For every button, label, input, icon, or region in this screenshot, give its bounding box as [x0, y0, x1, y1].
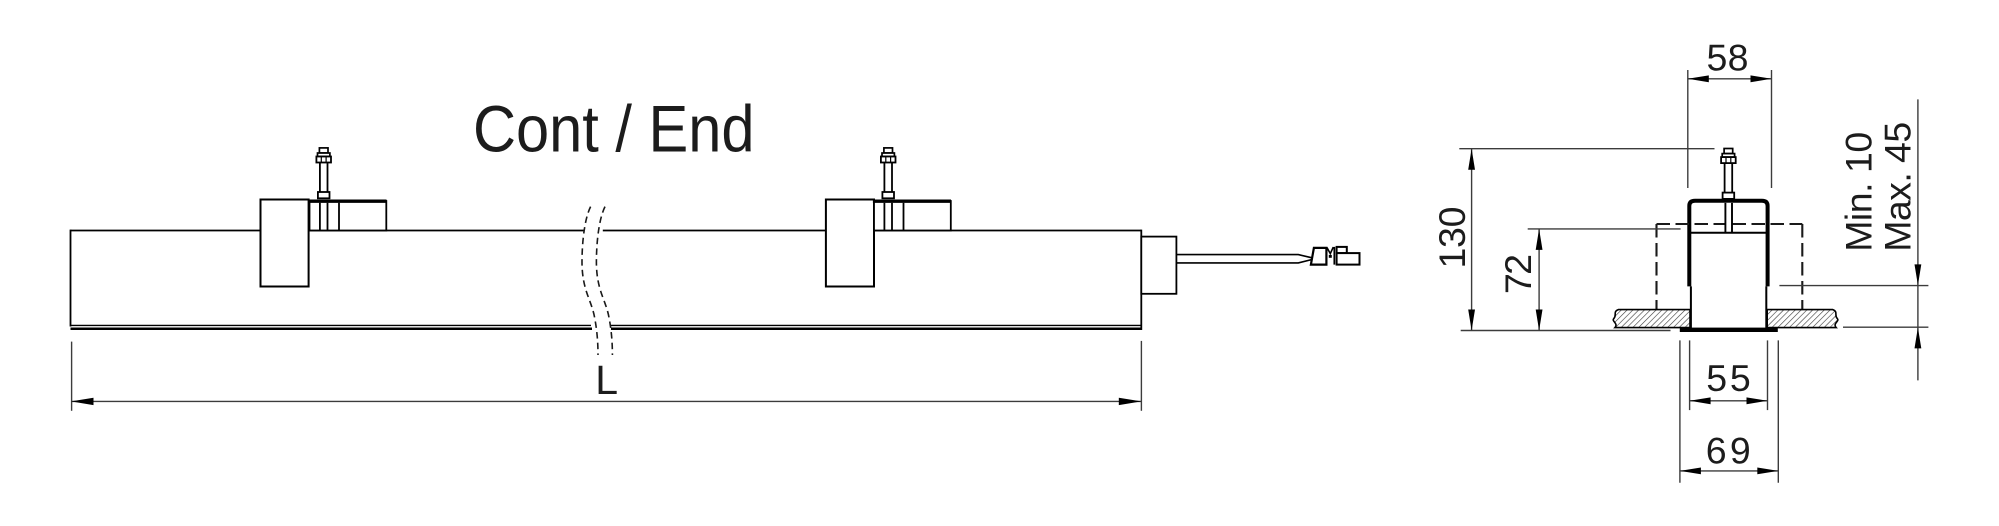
profile left edge	[70, 230, 72, 327]
cross-section: inner profile side lines	[1691, 233, 1766, 329]
svg-text:130: 130	[1431, 207, 1473, 269]
bracket 2 inner verticals	[884, 203, 903, 230]
end cap	[1141, 237, 1176, 294]
connector plug	[1311, 247, 1360, 265]
dimension 72	[1528, 229, 1681, 331]
dimension 130	[1459, 149, 1714, 331]
dimension 69	[1680, 340, 1778, 482]
dimension 55	[1690, 340, 1768, 410]
mounting clamp 2	[826, 200, 874, 287]
bolt 2	[881, 148, 896, 198]
profile base thick line	[71, 328, 1142, 331]
svg-text:72: 72	[1497, 254, 1539, 294]
bolt (cross-section)	[1721, 149, 1736, 199]
profile right edge	[1140, 230, 1142, 330]
inner profile top line	[1690, 232, 1767, 234]
svg-text:Max. 45: Max. 45	[1876, 122, 1918, 252]
ceiling panel right (hatched)	[1767, 310, 1838, 328]
bracket plate 1 (thick top)	[308, 199, 386, 202]
cross-section: outer spring bracket (thick)	[1689, 201, 1767, 287]
mounting clamp 1	[261, 200, 309, 287]
bolt 1	[316, 148, 331, 198]
dimension L	[71, 341, 1141, 411]
profile bottom thin line	[71, 324, 1142, 326]
flange plate	[1680, 328, 1778, 332]
bolt shaft through bracket (cross-section)	[1726, 203, 1732, 232]
svg-text:Min. 10: Min. 10	[1838, 132, 1880, 252]
bracket plate 2 (thick top)	[873, 199, 951, 202]
bracket box 2	[874, 201, 951, 231]
break lines (S-curves)	[582, 207, 612, 355]
cable	[1176, 255, 1312, 263]
bracket box 1	[310, 201, 387, 231]
ceiling panel left (hatched)	[1613, 310, 1690, 328]
svg-text:58: 58	[1707, 37, 1749, 79]
profile body top line	[71, 230, 1142, 232]
svg-text:L: L	[595, 357, 618, 403]
bracket 1 inner verticals	[320, 203, 339, 230]
dimension Min10/Max45	[1779, 99, 1928, 380]
svg-text:Cont / End: Cont / End	[473, 92, 755, 166]
dimension 58	[1688, 70, 1772, 188]
dashed ceiling cutout	[1657, 224, 1803, 309]
